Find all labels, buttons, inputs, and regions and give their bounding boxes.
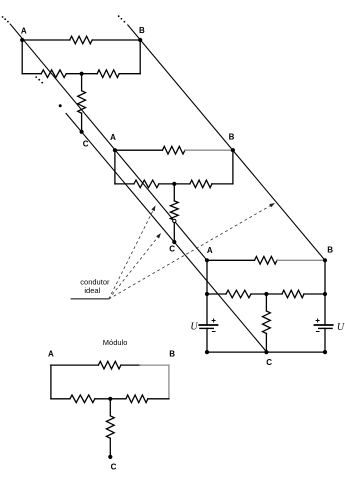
module 2 row2 right resistor <box>190 180 212 188</box>
module 2 wire midpoint down <box>173 184 175 201</box>
module 4 wire midpoint down <box>109 399 111 416</box>
module 4 row2 wire right <box>148 398 169 400</box>
module 4 row2 middle wire <box>95 398 126 400</box>
module 4 row2 left resistor <box>70 395 95 403</box>
module 3 wire A to top resistor <box>207 259 255 261</box>
battery U right, bottom plate (-) <box>318 327 333 329</box>
svg-text:B: B <box>327 245 333 254</box>
svg-text:U: U <box>190 322 198 333</box>
module 2 left vertical wire <box>114 150 116 184</box>
module 3 row2 wire right <box>304 293 325 295</box>
module 1 wire top resistor to B <box>92 39 140 41</box>
module 2 row2 wire left <box>115 183 134 185</box>
battery U left, top plate (+) <box>198 324 218 326</box>
svg-text:B: B <box>229 133 235 142</box>
svg-text:A: A <box>110 133 116 142</box>
conductor rail C (ideal conductor through nodes C) <box>66 113 267 352</box>
module 3 top resistor <box>255 257 278 265</box>
svg-text:C: C <box>169 245 175 254</box>
svg-text:C: C <box>111 463 117 472</box>
module 3 left vertical wire to battery <box>206 294 208 325</box>
module 4 wire resistor to C <box>109 438 111 457</box>
module 4 right vertical wire <box>168 365 170 399</box>
module 3 wire midpoint down <box>265 294 267 311</box>
module 4 node C <box>108 455 112 459</box>
module 4 midpoint node <box>108 397 112 401</box>
module 2 crossing hop (rail A over C wire) <box>173 219 176 222</box>
module 4 top resistor <box>98 361 121 369</box>
pointer dashed line to rail C <box>109 236 159 299</box>
module 3 row2 right node <box>323 292 327 296</box>
module 3 row2 left node <box>205 292 209 296</box>
module 3 row2 right resistor <box>282 290 304 298</box>
module 3 left wire battery to bottom <box>206 328 208 352</box>
module 2 row2 wire right <box>212 183 233 185</box>
pointer dashed line to rail B <box>109 205 272 299</box>
module 1 row2 middle wire <box>66 73 97 75</box>
battery U right, minus sign <box>316 331 320 333</box>
module 4 vertical resistor <box>106 416 114 439</box>
battery U right, top plate (+) <box>314 324 334 326</box>
module 4 wire A to top resistor <box>51 364 99 366</box>
battery U left, plus sign <box>212 319 216 323</box>
module 1 right vertical wire <box>139 40 141 74</box>
module 1 wire midpoint down <box>81 74 83 91</box>
module 1 top resistor <box>70 36 93 44</box>
module 1 row2 wire left <box>22 73 41 75</box>
module 4 row2 wire left <box>51 398 70 400</box>
module 3 row2 left resistor <box>226 290 251 298</box>
svg-text:A: A <box>48 349 54 358</box>
module 1 midpoint node <box>80 72 84 76</box>
svg-text:Módulo: Módulo <box>103 338 128 347</box>
svg-text:U: U <box>337 322 345 333</box>
module 1 wire A to top resistor <box>22 39 69 41</box>
module 2 top resistor <box>162 146 185 154</box>
module 3 bottom-left node <box>205 350 209 354</box>
module 2 midpoint node <box>172 182 176 186</box>
rail A dotted continuation (top-left) <box>2 16 9 22</box>
module 3 wire top resistor to B <box>276 259 278 261</box>
module 3 left vertical wire <box>206 260 208 294</box>
battery U right, plus sign <box>316 319 320 323</box>
module 1 node C <box>80 130 84 134</box>
module 1 row2 right resistor <box>97 70 119 78</box>
arrowhead to rail A <box>151 205 155 211</box>
conductor rail B (ideal conductor through nodes B) <box>127 25 325 261</box>
module 1 wire resistor to C <box>81 113 83 132</box>
arrowhead to rail B <box>269 203 275 207</box>
svg-text:A: A <box>207 246 213 255</box>
module 3 right vertical wire <box>324 260 326 294</box>
module 2 node A <box>113 148 117 152</box>
module 2 node B <box>231 148 235 152</box>
module 3 node B <box>323 258 327 262</box>
svg-text:C: C <box>83 140 89 149</box>
module 2 right vertical wire <box>232 150 234 184</box>
module 3 row2 wire left <box>207 293 226 295</box>
rail C dotted continuation <box>35 76 43 83</box>
module 3 row2 middle wire <box>251 293 282 295</box>
module 4 row2 right resistor <box>126 395 148 403</box>
module 2 row2 middle wire <box>159 183 190 185</box>
node on rail C continuation <box>59 104 62 107</box>
module 3 node A <box>205 258 209 262</box>
module 3 midpoint node <box>264 292 268 296</box>
module 2 node C <box>172 240 176 244</box>
module 1 row2 left resistor <box>41 70 66 78</box>
module 3 right wire battery to bottom <box>324 328 326 352</box>
module 3 wire resistor to C <box>265 334 267 353</box>
arrowhead to rail C <box>156 233 161 239</box>
svg-text:B: B <box>169 349 175 358</box>
svg-text:ideal: ideal <box>84 286 100 295</box>
condutor ideal underline <box>71 298 109 300</box>
svg-text:C: C <box>266 358 272 367</box>
module 1 node B <box>138 38 142 42</box>
module 4 wire top resistor to B <box>121 364 140 366</box>
module 1 vertical resistor <box>78 91 86 114</box>
module 3 right vertical wire to battery <box>324 294 326 325</box>
module 1 node A <box>20 38 24 42</box>
module 4 left vertical wire <box>50 365 52 399</box>
module 1 left vertical wire <box>21 40 23 74</box>
battery U left, minus sign <box>212 331 216 333</box>
module 2 row2 left resistor <box>134 180 159 188</box>
rail B dotted continuation (top) <box>118 15 126 22</box>
svg-text:A: A <box>21 27 27 36</box>
module 2 vertical resistor <box>170 201 178 220</box>
module 1 row2 wire right <box>119 73 140 75</box>
module 2 wire top resistor to B <box>184 149 186 151</box>
conductor rail A (ideal conductor through nodes A) <box>10 24 207 261</box>
module 3 vertical resistor <box>263 311 271 334</box>
module 2 wire A to top resistor <box>115 149 162 151</box>
module 3 bottom-right node <box>323 350 327 354</box>
module 2 wire resistor to C <box>173 220 175 242</box>
module 3 node C <box>264 350 268 354</box>
pointer dashed line to rail A <box>109 209 154 300</box>
battery U left, bottom plate (-) <box>199 327 214 329</box>
module 3 bottom wire <box>207 351 325 353</box>
svg-text:B: B <box>139 26 145 35</box>
